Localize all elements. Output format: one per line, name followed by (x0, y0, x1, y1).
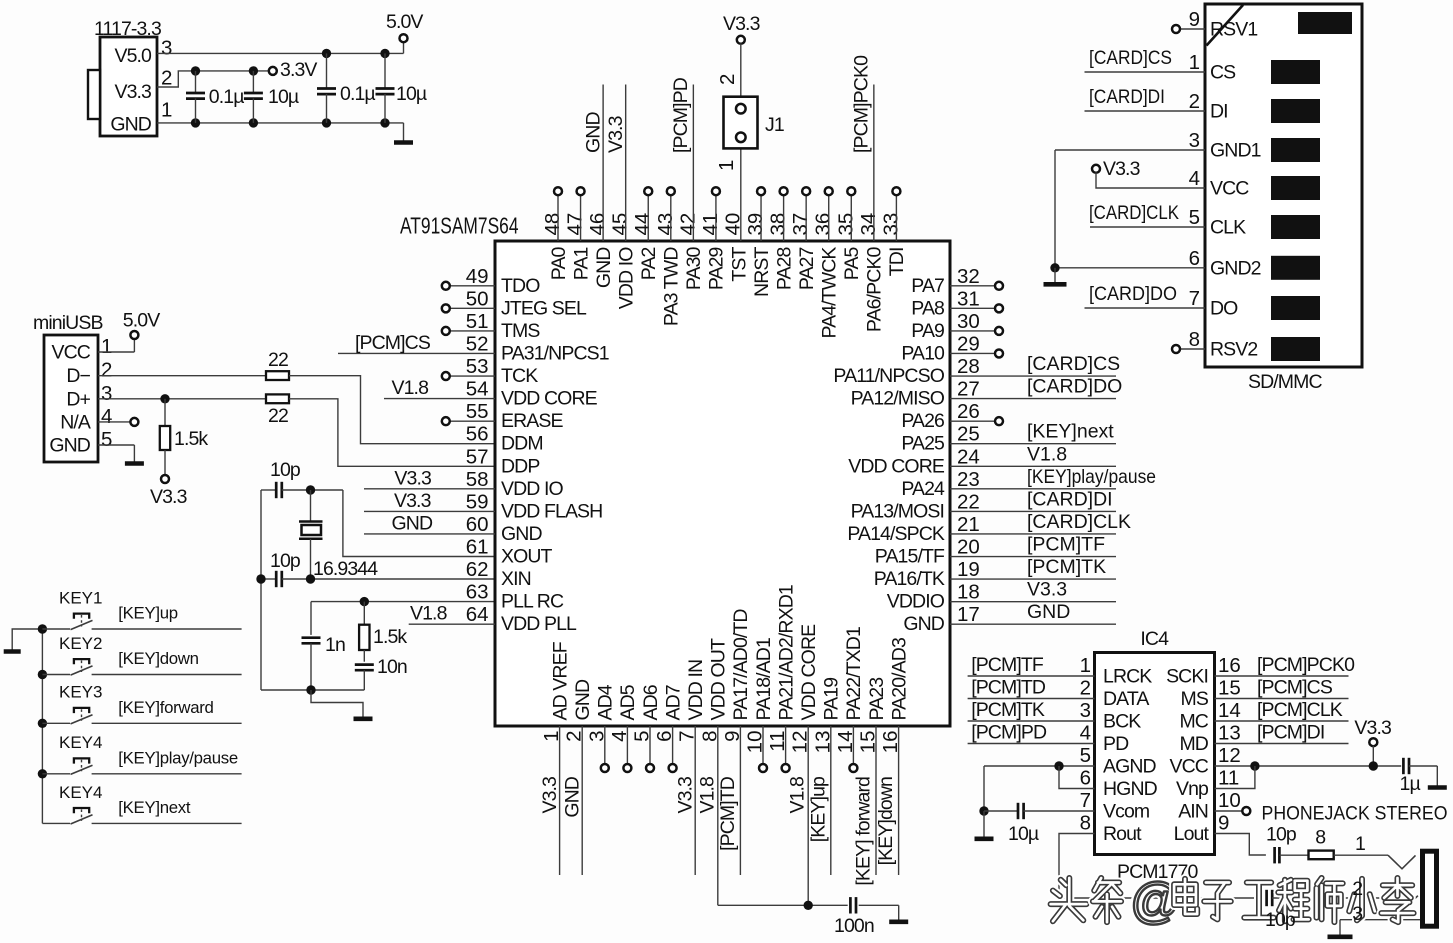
svg-text:XOUT: XOUT (501, 546, 553, 568)
svg-text:2: 2 (1189, 90, 1200, 113)
svg-text:GND: GND (49, 435, 90, 457)
svg-text:6: 6 (1080, 767, 1091, 790)
MCU left unconnected pins 49,50,51,53,55 (442, 282, 495, 290)
svg-text:MC: MC (1179, 711, 1208, 733)
svg-text:PA9: PA9 (911, 320, 944, 342)
svg-text:PA4/TWCK: PA4/TWCK (819, 247, 841, 339)
capacitor C10 10u (Vcom) (984, 803, 1095, 845)
svg-text:32: 32 (957, 265, 980, 288)
svg-text:PA28: PA28 (773, 247, 795, 290)
svg-text:[PCM]PD: [PCM]PD (971, 722, 1047, 744)
wire regulator pin2 to 3.3V node (157, 71, 269, 87)
wire V3.3 pin7 (675, 726, 697, 875)
svg-text:[PCM]PD: [PCM]PD (670, 77, 692, 153)
svg-text:AGND: AGND (1103, 756, 1157, 778)
svg-text:[CARD]CLK: [CARD]CLK (1089, 202, 1179, 224)
svg-text:CS: CS (1210, 62, 1236, 84)
svg-text:V3.3: V3.3 (1103, 158, 1140, 180)
capacitor C13 10p (Rout) (1267, 890, 1273, 906)
wire [PCM]CLK IC4 pin14 (1215, 699, 1349, 721)
svg-text:VDD CORE: VDD CORE (798, 624, 820, 721)
wire [PCM]TF IC4 pin1 (968, 654, 1095, 676)
wire V3.3 pin18 (950, 579, 1116, 602)
wire HGND pin6 (1059, 766, 1095, 789)
wire [PCM]TK pin19 (950, 556, 1116, 579)
svg-text:PA29: PA29 (706, 247, 728, 290)
terminal V3.3 (pullup) (150, 475, 187, 508)
SD pin labels (1189, 8, 1261, 361)
svg-text:57: 57 (466, 445, 489, 468)
svg-text:ERASE: ERASE (501, 410, 564, 432)
wire [PCM]TF pin20 (950, 534, 1116, 557)
svg-text:3: 3 (1080, 699, 1091, 722)
svg-text:28: 28 (957, 355, 980, 378)
svg-text:64: 64 (466, 603, 489, 626)
capacitor C11 1u (1400, 758, 1421, 795)
svg-text:TDI: TDI (886, 248, 908, 277)
svg-text:RSV1: RSV1 (1210, 19, 1257, 41)
capacitor C2 10u (244, 71, 299, 123)
svg-text:4: 4 (1080, 722, 1091, 745)
svg-text:VCC: VCC (1170, 756, 1209, 778)
svg-text:58: 58 (466, 468, 489, 491)
ground (jack) (1328, 920, 1353, 937)
resistor R6 8 (Lout) (1279, 827, 1333, 859)
svg-text:5.0V: 5.0V (386, 11, 423, 33)
svg-text:PA2: PA2 (638, 247, 660, 280)
terminal 5.0V (USB) (98, 310, 160, 353)
svg-text:[KEY]play/pause: [KEY]play/pause (1027, 466, 1156, 488)
svg-text:[KEY] forward: [KEY] forward (853, 777, 875, 886)
terminal V3.3 (SD VCC) (1092, 158, 1140, 180)
svg-text:51: 51 (466, 310, 489, 333)
wire 100n row (718, 904, 848, 906)
svg-text:SD/MMC: SD/MMC (1248, 371, 1322, 393)
svg-text:V3.3: V3.3 (675, 777, 697, 814)
svg-text:25: 25 (957, 423, 980, 446)
svg-text:V1.8: V1.8 (392, 377, 429, 399)
svg-text:5: 5 (1189, 206, 1200, 229)
svg-text:RSV2: RSV2 (1210, 339, 1257, 361)
svg-text:PA3 TWD: PA3 TWD (661, 247, 683, 326)
svg-text:63: 63 (466, 581, 489, 604)
svg-text:2: 2 (1352, 878, 1362, 900)
svg-text:V3.3: V3.3 (1354, 717, 1391, 739)
svg-text:miniUSB: miniUSB (33, 312, 103, 334)
svg-text:PA24: PA24 (901, 478, 945, 500)
svg-text:37: 37 (789, 213, 812, 236)
svg-text:J1: J1 (765, 114, 784, 136)
wire V3.3 to TST pin40 (740, 43, 742, 241)
svg-text:1n: 1n (325, 634, 345, 656)
svg-text:0.1µ: 0.1µ (340, 83, 375, 105)
svg-text:10µ: 10µ (1008, 823, 1039, 845)
svg-text:49: 49 (466, 265, 489, 288)
capacitor C9 100n (834, 897, 874, 937)
terminal 3.3V (269, 59, 318, 81)
ground (keys) (4, 629, 43, 652)
svg-text:1: 1 (161, 99, 172, 122)
svg-text:5.0V: 5.0V (123, 310, 160, 332)
capacitor C8 10n (355, 656, 407, 690)
svg-text:VDD OUT: VDD OUT (708, 638, 730, 720)
svg-text:PA25: PA25 (901, 433, 945, 455)
svg-text:1µ: 1µ (1400, 773, 1421, 795)
svg-text:SCKI: SCKI (1166, 666, 1208, 688)
wire xtal top row (261, 489, 276, 491)
capacitor C3 0.1u (317, 53, 375, 123)
svg-text:3: 3 (161, 37, 172, 60)
svg-text:10p: 10p (270, 459, 301, 481)
svg-text:GND: GND (903, 613, 944, 635)
svg-text:43: 43 (654, 213, 677, 236)
svg-text:PA22/TXD1: PA22/TXD1 (843, 627, 865, 720)
svg-text:41: 41 (699, 213, 722, 236)
svg-text:PA0: PA0 (548, 246, 570, 280)
svg-text:[PCM]CS: [PCM]CS (1257, 677, 1333, 699)
svg-text:62: 62 (466, 558, 489, 581)
wire to XOUT branch (282, 489, 343, 491)
svg-text:16.9344: 16.9344 (313, 558, 378, 580)
svg-text:GND: GND (110, 114, 151, 136)
svg-text:1.5k: 1.5k (373, 626, 407, 648)
svg-text:Vcom: Vcom (1103, 801, 1149, 823)
wire GND pin2 (562, 726, 584, 875)
svg-text:AT91SAM7S64: AT91SAM7S64 (400, 213, 519, 239)
svg-text:19: 19 (957, 558, 980, 581)
node PLL RC (360, 597, 369, 606)
connector phone jack body (1423, 851, 1437, 926)
svg-text:0.1µ: 0.1µ (209, 86, 244, 108)
svg-text:CLK: CLK (1210, 217, 1246, 239)
svg-text:V3.3: V3.3 (539, 777, 561, 814)
wire V3.3 pin1 (539, 726, 561, 875)
svg-text:GND2: GND2 (1210, 257, 1261, 279)
switch KEY4 ([KEY]next) (42, 783, 241, 824)
svg-text:[PCM]PCK0: [PCM]PCK0 (1257, 654, 1355, 676)
svg-text:26: 26 (957, 400, 980, 423)
wire [PCM]TD pin9 (717, 726, 741, 875)
miniUSB pin labels (49, 335, 112, 457)
svg-text:V3.3: V3.3 (394, 490, 431, 512)
svg-text:DO: DO (1210, 298, 1238, 320)
svg-text:DI: DI (1210, 101, 1228, 123)
svg-text:45: 45 (609, 213, 632, 236)
wire PLL RC row (311, 601, 495, 603)
svg-text:VDD IO: VDD IO (501, 478, 564, 500)
svg-text:36: 36 (812, 213, 835, 236)
svg-text:TST: TST (728, 247, 750, 282)
svg-text:1: 1 (101, 335, 112, 358)
svg-text:GND1: GND1 (1210, 140, 1261, 162)
svg-text:PA8: PA8 (911, 297, 944, 319)
ground (USB) (98, 445, 144, 464)
jumper J1 (715, 74, 784, 171)
svg-text:V1.8: V1.8 (696, 777, 718, 814)
svg-text:22: 22 (957, 490, 980, 513)
svg-text:V3.3: V3.3 (723, 13, 760, 35)
svg-text:[CARD]CS: [CARD]CS (1027, 353, 1120, 375)
wire [PCM]CS pin52 (338, 332, 495, 354)
svg-text:PA20/AD3: PA20/AD3 (888, 638, 910, 720)
wire [PCM]PD IC4 pin4 (968, 722, 1095, 744)
wire Vnp pin11 (1215, 766, 1255, 789)
svg-text:24: 24 (957, 445, 980, 468)
wire V1.8 pin24 (950, 443, 1116, 466)
svg-text:Lout: Lout (1174, 823, 1210, 845)
wire XOUT (343, 490, 495, 557)
wire [KEY]up pin13 (807, 726, 831, 875)
svg-text:29: 29 (957, 332, 980, 355)
wire key bus (41, 629, 43, 823)
svg-text:Rout: Rout (1103, 823, 1142, 845)
svg-text:PA17/AD0/TD: PA17/AD0/TD (730, 609, 752, 721)
switch KEY3 ([KEY]forward) (38, 683, 242, 728)
ground (SD) (1044, 268, 1067, 285)
svg-text:PA7: PA7 (911, 275, 944, 297)
wire AGND down to Vcom node (983, 766, 985, 811)
svg-text:TDO: TDO (501, 275, 540, 297)
svg-text:8: 8 (1080, 812, 1091, 835)
wire xtal bottom row / XIN (261, 578, 276, 580)
wire [KEY] forward pin15 (853, 726, 877, 886)
svg-text:GND: GND (392, 512, 433, 534)
capacitor C5 10p (270, 459, 301, 498)
resistor R2 22 (D-) (266, 349, 289, 380)
wire AGND pin5 (984, 765, 1095, 767)
svg-text:10p: 10p (1265, 909, 1296, 931)
svg-text:47: 47 (564, 213, 587, 236)
svg-text:GND: GND (572, 679, 594, 720)
svg-text:39: 39 (744, 213, 767, 236)
svg-text:VDD CORE: VDD CORE (848, 455, 945, 477)
svg-text:HGND: HGND (1103, 778, 1158, 800)
svg-text:VDD FLASH: VDD FLASH (501, 500, 602, 522)
svg-text:PA21/AD2/RXD1: PA21/AD2/RXD1 (775, 585, 797, 720)
svg-text:16: 16 (1218, 654, 1241, 677)
svg-text:MS: MS (1181, 688, 1209, 710)
svg-text:4: 4 (101, 405, 112, 428)
svg-text:100n: 100n (834, 915, 874, 937)
jack ring contact (1387, 896, 1418, 912)
svg-text:7: 7 (1080, 789, 1091, 812)
svg-text:NRST: NRST (751, 247, 773, 297)
switch KEY2 ([KEY]down) (38, 634, 242, 679)
svg-text:38: 38 (767, 213, 790, 236)
svg-text:[KEY]next: [KEY]next (1027, 421, 1114, 443)
svg-text:[CARD]DO: [CARD]DO (1027, 376, 1122, 398)
wire D- to DDM (289, 376, 495, 444)
wire [PCM]PD pin42 (670, 77, 694, 241)
svg-text:[PCM]TF: [PCM]TF (971, 654, 1044, 676)
svg-text:3.3V: 3.3V (280, 59, 317, 81)
svg-text:PA31/NPCS1: PA31/NPCS1 (501, 342, 609, 364)
wire V3.3 pin58 (364, 467, 495, 489)
SD notch (1207, 5, 1244, 46)
svg-text:AD5: AD5 (617, 684, 639, 720)
svg-text:9: 9 (1218, 812, 1229, 835)
svg-text:BCK: BCK (1103, 711, 1141, 733)
svg-text:[CARD]CLK: [CARD]CLK (1027, 511, 1131, 533)
svg-text:23: 23 (957, 468, 980, 491)
svg-text:53: 53 (466, 355, 489, 378)
jack tip contact (1388, 855, 1416, 869)
ground (PLL) (311, 690, 373, 719)
wire GND pin17 (950, 601, 1116, 624)
svg-text:56: 56 (466, 423, 489, 446)
wire to jack pin2 (1272, 897, 1387, 899)
switch KEY4 ([KEY]play/pause) (38, 733, 242, 778)
wire SD gnd bus (1054, 150, 1056, 268)
svg-text:[PCM]TK: [PCM]TK (1027, 556, 1106, 578)
svg-text:V3.3: V3.3 (1027, 579, 1067, 601)
svg-text:3: 3 (1352, 903, 1362, 925)
svg-text:3: 3 (101, 382, 112, 405)
MCU bottom pin names and numbers (540, 585, 910, 753)
wire [PCM]CS IC4 pin15 (1215, 677, 1349, 699)
svg-text:22: 22 (268, 405, 288, 427)
svg-text:[CARD]DI: [CARD]DI (1027, 488, 1113, 510)
node SD gnd (1050, 263, 1059, 272)
svg-text:GND: GND (593, 247, 615, 288)
svg-text:KEY2: KEY2 (59, 634, 102, 653)
node AGND (1054, 761, 1063, 770)
svg-text:11: 11 (1218, 767, 1239, 790)
svg-text:GND: GND (501, 523, 542, 545)
svg-text:V1.8: V1.8 (1027, 443, 1067, 465)
svg-text:[CARD]DO: [CARD]DO (1089, 283, 1177, 305)
svg-text:V3.3: V3.3 (150, 486, 187, 508)
svg-text:31: 31 (957, 287, 980, 310)
node VCC/Vnp (1250, 761, 1259, 770)
wire VCC pin12 rail (1215, 765, 1402, 767)
wire [PCM]TK IC4 pin3 (968, 699, 1095, 721)
MCU left pin names and numbers (466, 265, 609, 635)
resistor R4 1.5k pullup (160, 399, 209, 476)
svg-text:14: 14 (1218, 699, 1241, 722)
wire [CARD]CS to SD pin1 (1085, 47, 1206, 72)
svg-text:GND: GND (583, 112, 605, 153)
capacitor C12 10p (Lout) (1266, 824, 1297, 864)
svg-text:22: 22 (268, 349, 288, 371)
svg-text:61: 61 (466, 536, 489, 559)
svg-text:60: 60 (466, 513, 489, 536)
svg-text:PA10: PA10 (901, 342, 945, 364)
svg-text:V5.0: V5.0 (114, 45, 152, 67)
watermark banner (1051, 873, 1414, 929)
svg-text:1: 1 (715, 160, 738, 171)
wire [PCM]PCK0 IC4 pin16 (1215, 654, 1356, 676)
wire [CARD]DI pin22 (950, 488, 1116, 511)
wire V1.8 pin54 (384, 377, 495, 399)
svg-text:27: 27 (957, 378, 980, 401)
wire D+ to DDP (289, 399, 495, 467)
svg-text:2: 2 (1080, 677, 1091, 700)
svg-text:VCC: VCC (1210, 178, 1249, 200)
voltage regulator U1 1117-3.3 (88, 18, 161, 136)
MCU right unconnected pins 32,31,30,29,26 (950, 282, 1003, 290)
IC4 pin labels (1080, 654, 1241, 845)
svg-text:10µ: 10µ (396, 83, 427, 105)
svg-text:[PCM]TK: [PCM]TK (971, 699, 1045, 721)
svg-text:20: 20 (957, 536, 980, 559)
svg-text:1: 1 (1080, 654, 1091, 677)
svg-text:55: 55 (466, 400, 489, 423)
svg-text:V3.3: V3.3 (394, 467, 431, 489)
MCU top unconnected pins (554, 187, 562, 241)
svg-text:PA19: PA19 (821, 678, 843, 721)
svg-text:DDM: DDM (501, 433, 543, 455)
svg-text:1: 1 (1355, 833, 1365, 855)
node Vcom (979, 806, 988, 815)
capacitor C6 10p (270, 550, 301, 587)
wire GND2 SD pin6 (1055, 267, 1205, 269)
svg-text:4: 4 (1189, 167, 1200, 190)
connector miniUSB (33, 312, 103, 462)
wire [CARD]DI to SD pin2 (1085, 86, 1206, 111)
svg-text:PA16/TK: PA16/TK (874, 568, 945, 590)
svg-text:DDP: DDP (501, 455, 539, 477)
svg-text:10µ: 10µ (268, 86, 299, 108)
svg-text:[PCM]PCK0: [PCM]PCK0 (850, 55, 872, 153)
node xtal top (306, 485, 315, 494)
svg-text:[KEY]play/pause: [KEY]play/pause (118, 748, 238, 767)
node PLL gnd row (306, 685, 315, 694)
wire [KEY]down pin16 (875, 726, 899, 875)
svg-text:PA27: PA27 (796, 247, 818, 290)
node xtal bottom (306, 574, 315, 583)
svg-text:30: 30 (957, 310, 980, 333)
capacitor C4 10u (376, 53, 427, 123)
svg-text:V1.8: V1.8 (787, 777, 809, 814)
capacitor C7 1n (302, 602, 345, 690)
svg-text:VDD IO: VDD IO (615, 247, 637, 310)
svg-text:IC4: IC4 (1140, 628, 1169, 650)
svg-text:D−: D− (66, 365, 90, 387)
svg-text:LRCK: LRCK (1103, 666, 1152, 688)
svg-text:GND: GND (562, 776, 584, 817)
wire V1.8 pin8 to 100n (696, 726, 718, 905)
wire [CARD]DO to SD pin7 (1085, 283, 1206, 308)
svg-text:AD VREF: AD VREF (549, 641, 571, 720)
wire PLL bottom row (261, 689, 364, 691)
svg-text:PA26: PA26 (901, 410, 944, 432)
svg-text:V1.8: V1.8 (410, 603, 447, 625)
svg-text:[KEY]down: [KEY]down (875, 777, 897, 865)
svg-text:10p: 10p (1266, 824, 1297, 846)
wire [CARD]CS pin28 (950, 353, 1120, 376)
wire Rout pin8 to jack ring (1059, 834, 1264, 899)
svg-text:17: 17 (957, 603, 980, 626)
svg-text:VDD IN: VDD IN (685, 660, 707, 721)
svg-text:[PCM]CS: [PCM]CS (355, 332, 431, 354)
SD RSV2 pin8 unconnected (1172, 345, 1205, 353)
svg-text:18: 18 (957, 581, 980, 604)
svg-text:AD4: AD4 (595, 684, 617, 720)
svg-text:Vnp: Vnp (1176, 778, 1209, 800)
wire D- (98, 375, 266, 377)
wire D+ (98, 398, 266, 400)
svg-text:10p: 10p (270, 550, 301, 572)
svg-text:TMS: TMS (501, 320, 540, 342)
svg-text:VCC: VCC (52, 342, 91, 364)
wire [CARD]DO pin27 (950, 376, 1122, 399)
svg-text:PA5: PA5 (841, 246, 863, 280)
svg-text:TCK: TCK (501, 365, 538, 387)
svg-text:42: 42 (676, 213, 699, 236)
svg-text:2: 2 (716, 74, 739, 85)
svg-text:KEY4: KEY4 (59, 783, 102, 802)
